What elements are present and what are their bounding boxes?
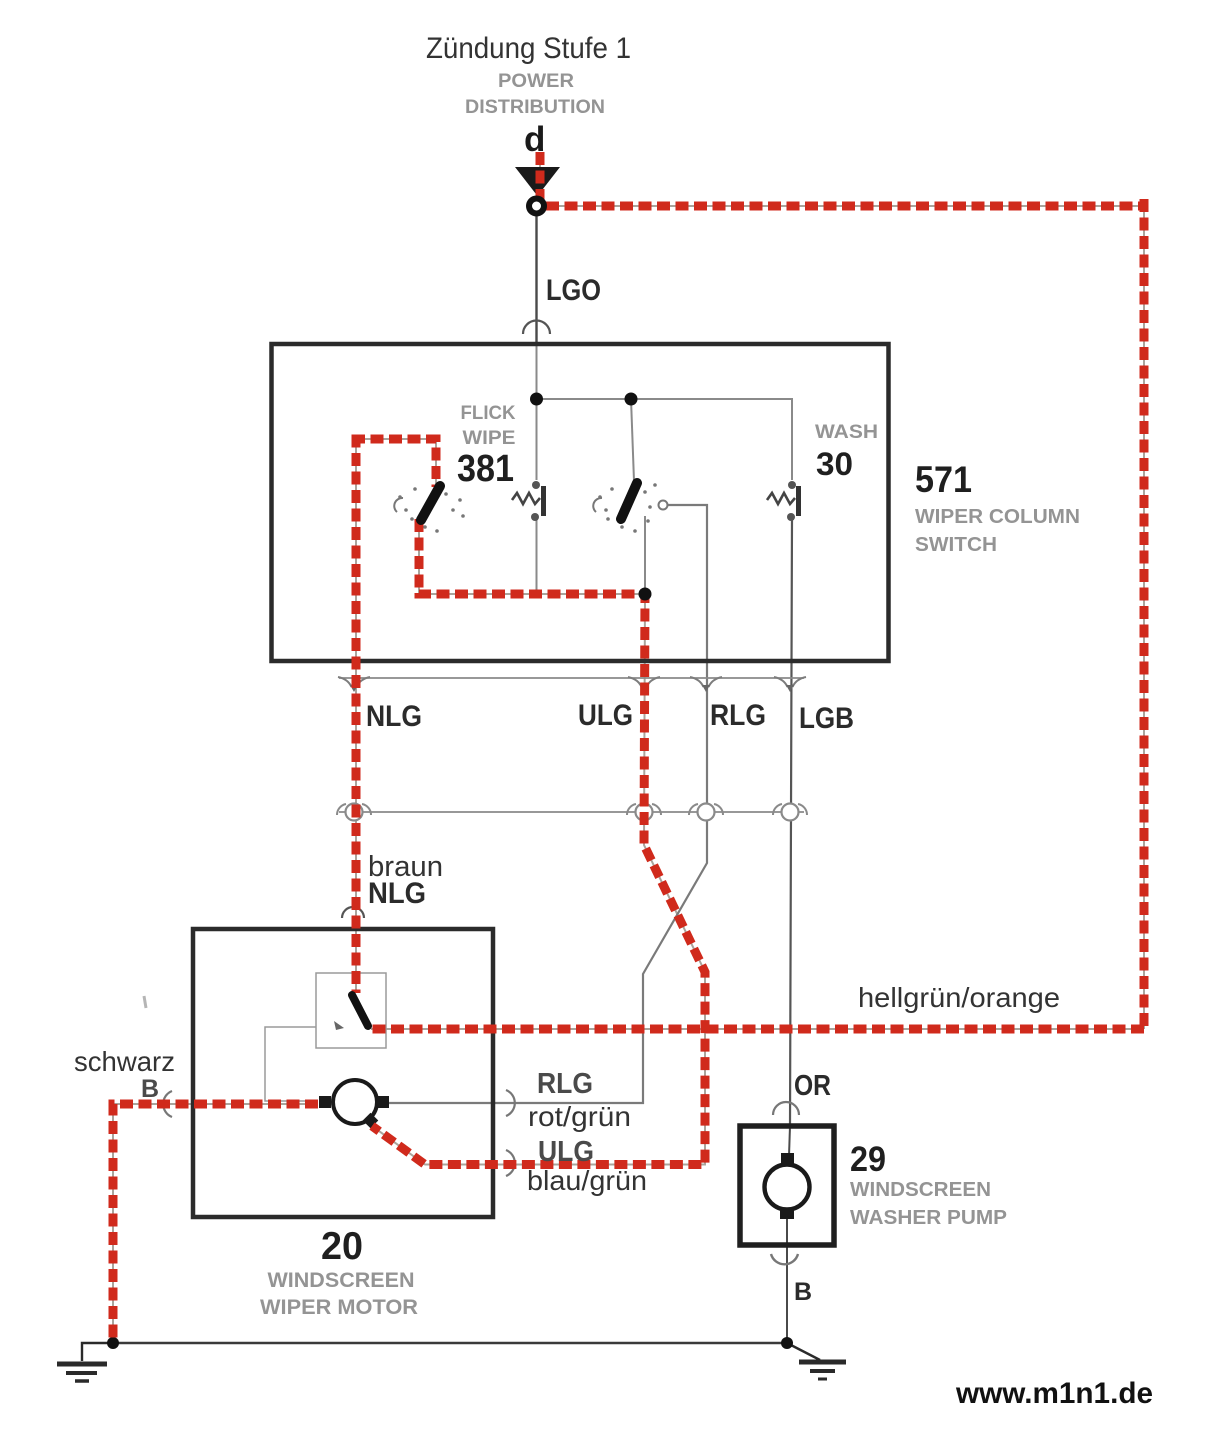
svg-text:381: 381 [457, 448, 514, 490]
red wire top corner into flick switch [352, 439, 436, 487]
svg-text:WASHER PUMP: WASHER PUMP [850, 1207, 1007, 1229]
svg-text:WINDSCREEN: WINDSCREEN [850, 1179, 991, 1201]
red wire bottom back to motor park switch [371, 1025, 1144, 1034]
svg-text:WIPE: WIPE [463, 428, 516, 449]
red wire NLG vertical [352, 435, 361, 994]
svg-text:POWER: POWER [498, 71, 574, 92]
svg-text:30: 30 [816, 446, 853, 482]
connector row 1 below switch box [339, 677, 804, 679]
wash switch resistor/detent symbol 30 [767, 493, 795, 504]
svg-text:SWITCH: SWITCH [915, 534, 997, 556]
connector row 2 [339, 811, 804, 813]
svg-text:blau/grün: blau/grün [527, 1165, 647, 1196]
wire internal LGO continuation to flick/wipe resistor [536, 344, 538, 480]
inline connector arc OR at pump [773, 1102, 799, 1115]
svg-text:NLG: NLG [366, 700, 422, 733]
svg-text:WIPER COLUMN: WIPER COLUMN [915, 506, 1080, 528]
inline connector arc NLG at motor [342, 907, 364, 918]
svg-text:20: 20 [321, 1225, 363, 1268]
wire drop to wipe switch lever [631, 399, 634, 481]
svg-text:DISTRIBUTION: DISTRIBUTION [465, 97, 605, 118]
box 571 wiper column switch [272, 344, 889, 661]
park switch lever inside motor [352, 995, 368, 1026]
rotary contact dots wipe switch [598, 483, 657, 533]
motor M armature circle [333, 1080, 377, 1124]
connector hooks row 1 [338, 677, 806, 687]
svg-text:NLG: NLG [368, 877, 426, 910]
svg-text:WINDSCREEN: WINDSCREEN [268, 1269, 415, 1292]
box 20 windscreen wiper motor [193, 929, 493, 1217]
inline connector arc B below pump [771, 1254, 798, 1264]
svg-text:RLG: RLG [710, 699, 766, 732]
wire internal top bus [537, 398, 793, 400]
pump top terminal [781, 1153, 794, 1164]
park switch inner box [316, 973, 386, 1048]
wire inside pump box [789, 1126, 790, 1156]
svg-text:WIPER MOTOR: WIPER MOTOR [260, 1296, 418, 1319]
svg-text:LGB: LGB [799, 702, 854, 735]
gray underlay wires beneath red highlight [113, 152, 1144, 1340]
junction dot at wipe switch feed [625, 393, 638, 406]
red wire ULG down through connectors and cross-over [372, 590, 705, 1165]
ground symbol left [57, 1343, 113, 1381]
svg-text:WASH: WASH [815, 422, 878, 443]
svg-text:RLG: RLG [537, 1068, 593, 1100]
connector rings row 2 [346, 804, 799, 821]
rotary contact dots flick switch [398, 487, 465, 533]
wire wipe switch lever to ULG junction [644, 516, 646, 594]
svg-text:www.m1n1.de: www.m1n1.de [955, 1377, 1153, 1410]
motor left terminal [319, 1096, 331, 1108]
svg-text:LGO: LGO [546, 274, 601, 307]
scan artifact tick [144, 996, 146, 1008]
flick wipe resistor/detent symbol [512, 493, 540, 504]
red wire right side down [1140, 199, 1149, 1029]
red wire below flick switch to ULG junction [419, 519, 649, 594]
wire LGB from wash switch to pump [790, 518, 792, 1126]
junction dot right ground [781, 1337, 793, 1349]
svg-text:OR: OR [794, 1070, 831, 1102]
motor bottom terminal [363, 1113, 379, 1129]
park switch contact arrow [334, 1021, 344, 1030]
motor internal wire to park switch [265, 1027, 316, 1101]
svg-text:571: 571 [915, 459, 972, 500]
power feed triangle arrow [515, 167, 560, 196]
junction dot left ground [107, 1337, 119, 1349]
box 29 windscreen washer pump [740, 1126, 834, 1245]
junction dot ULG at switch output [639, 588, 652, 601]
svg-text:ULG: ULG [538, 1136, 594, 1168]
svg-text:29: 29 [850, 1140, 886, 1179]
wipe switch lever [621, 483, 637, 519]
svg-text:Zündung Stufe 1: Zündung Stufe 1 [426, 32, 631, 65]
node circle below power triangle [529, 199, 544, 214]
inline connector arc ULG at motor [506, 1150, 515, 1176]
svg-text:ULG: ULG [578, 699, 633, 732]
svg-text:schwarz: schwarz [74, 1046, 175, 1077]
red wire B from motor to ground [113, 1104, 318, 1340]
svg-text:B: B [794, 1278, 812, 1306]
inline connector arc B (schwarz) [163, 1091, 172, 1117]
ground symbol right [787, 1343, 846, 1379]
junction dot at LGO bus [530, 393, 543, 406]
wire wipe switch contact to RLG [389, 505, 707, 1103]
wire LGO vertical from node to switch box [535, 215, 537, 344]
svg-text:hellgrün/orange: hellgrün/orange [858, 982, 1060, 1013]
svg-text:rot/grün: rot/grün [528, 1101, 631, 1132]
wire ground bus bottom [113, 1342, 787, 1344]
pump armature circle [765, 1165, 810, 1210]
flick wipe switch lever 381 [421, 486, 440, 520]
wipe switch contact circle [659, 501, 668, 510]
motor right terminal [377, 1096, 389, 1108]
inline connector arc RLG at motor [506, 1090, 515, 1116]
svg-text:FLICK: FLICK [461, 403, 516, 424]
wire wash branch [791, 398, 793, 480]
red highlight path: feed d to node [536, 152, 545, 204]
svg-text:B: B [141, 1075, 159, 1103]
inline connector arc LGO [523, 321, 550, 335]
pump bottom terminal [780, 1208, 794, 1219]
red wire node to right edge (hellgruen/orange) [546, 202, 1144, 211]
wire pump to ground [786, 1245, 788, 1340]
